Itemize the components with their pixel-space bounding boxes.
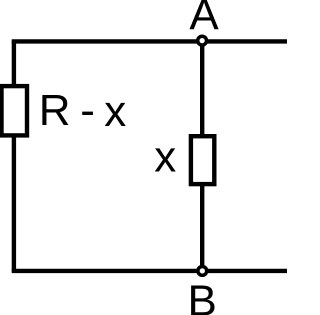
svg-text:x: x — [154, 133, 176, 182]
svg-text:B: B — [188, 276, 217, 315]
svg-text:A: A — [189, 0, 219, 40]
svg-text:x: x — [104, 87, 126, 136]
svg-text:R: R — [39, 86, 71, 135]
svg-text:-: - — [80, 86, 95, 135]
